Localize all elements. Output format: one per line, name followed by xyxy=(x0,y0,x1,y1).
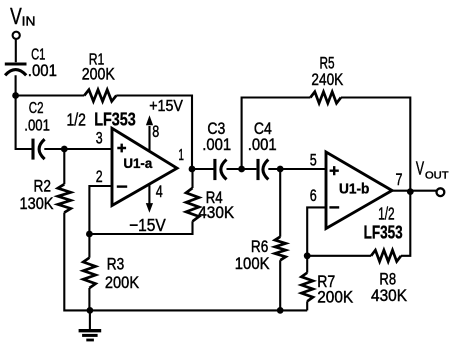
svg-text:.001: .001 xyxy=(248,136,277,154)
svg-text:OUT: OUT xyxy=(425,170,449,181)
svg-text:−15V: −15V xyxy=(129,215,166,235)
svg-text:C2: C2 xyxy=(29,100,44,117)
svg-text:200K: 200K xyxy=(317,288,354,307)
svg-text:4: 4 xyxy=(156,182,163,201)
svg-text:200K: 200K xyxy=(105,273,140,292)
svg-text:7: 7 xyxy=(396,170,403,189)
svg-text:R2: R2 xyxy=(34,177,52,195)
svg-text:IN: IN xyxy=(22,14,36,28)
svg-text:U1-a: U1-a xyxy=(123,155,152,171)
svg-text:200K: 200K xyxy=(82,65,115,83)
svg-text:V: V xyxy=(10,3,22,29)
svg-text:LF353: LF353 xyxy=(94,109,136,129)
svg-text:R3: R3 xyxy=(107,255,125,274)
svg-text:240K: 240K xyxy=(311,70,343,89)
svg-text:+15V: +15V xyxy=(149,98,183,115)
svg-text:.001: .001 xyxy=(24,118,50,135)
svg-text:430K: 430K xyxy=(198,204,234,222)
svg-text:100K: 100K xyxy=(235,254,270,273)
svg-text:LF353: LF353 xyxy=(364,223,403,243)
svg-text:1: 1 xyxy=(178,147,184,164)
svg-text:1/2: 1/2 xyxy=(67,109,86,129)
svg-text:V: V xyxy=(416,159,424,179)
svg-text:5: 5 xyxy=(310,151,317,170)
svg-text:.001: .001 xyxy=(202,136,231,154)
svg-text:U1-b: U1-b xyxy=(339,182,370,198)
svg-text:6: 6 xyxy=(310,186,317,205)
svg-text:3: 3 xyxy=(96,129,103,148)
svg-text:8: 8 xyxy=(152,122,159,141)
svg-text:1/2: 1/2 xyxy=(378,204,395,224)
svg-text:430K: 430K xyxy=(371,286,408,305)
svg-text:.001: .001 xyxy=(28,62,57,80)
svg-text:2: 2 xyxy=(96,167,103,186)
svg-text:C1: C1 xyxy=(31,47,45,64)
svg-text:130K: 130K xyxy=(20,195,54,213)
